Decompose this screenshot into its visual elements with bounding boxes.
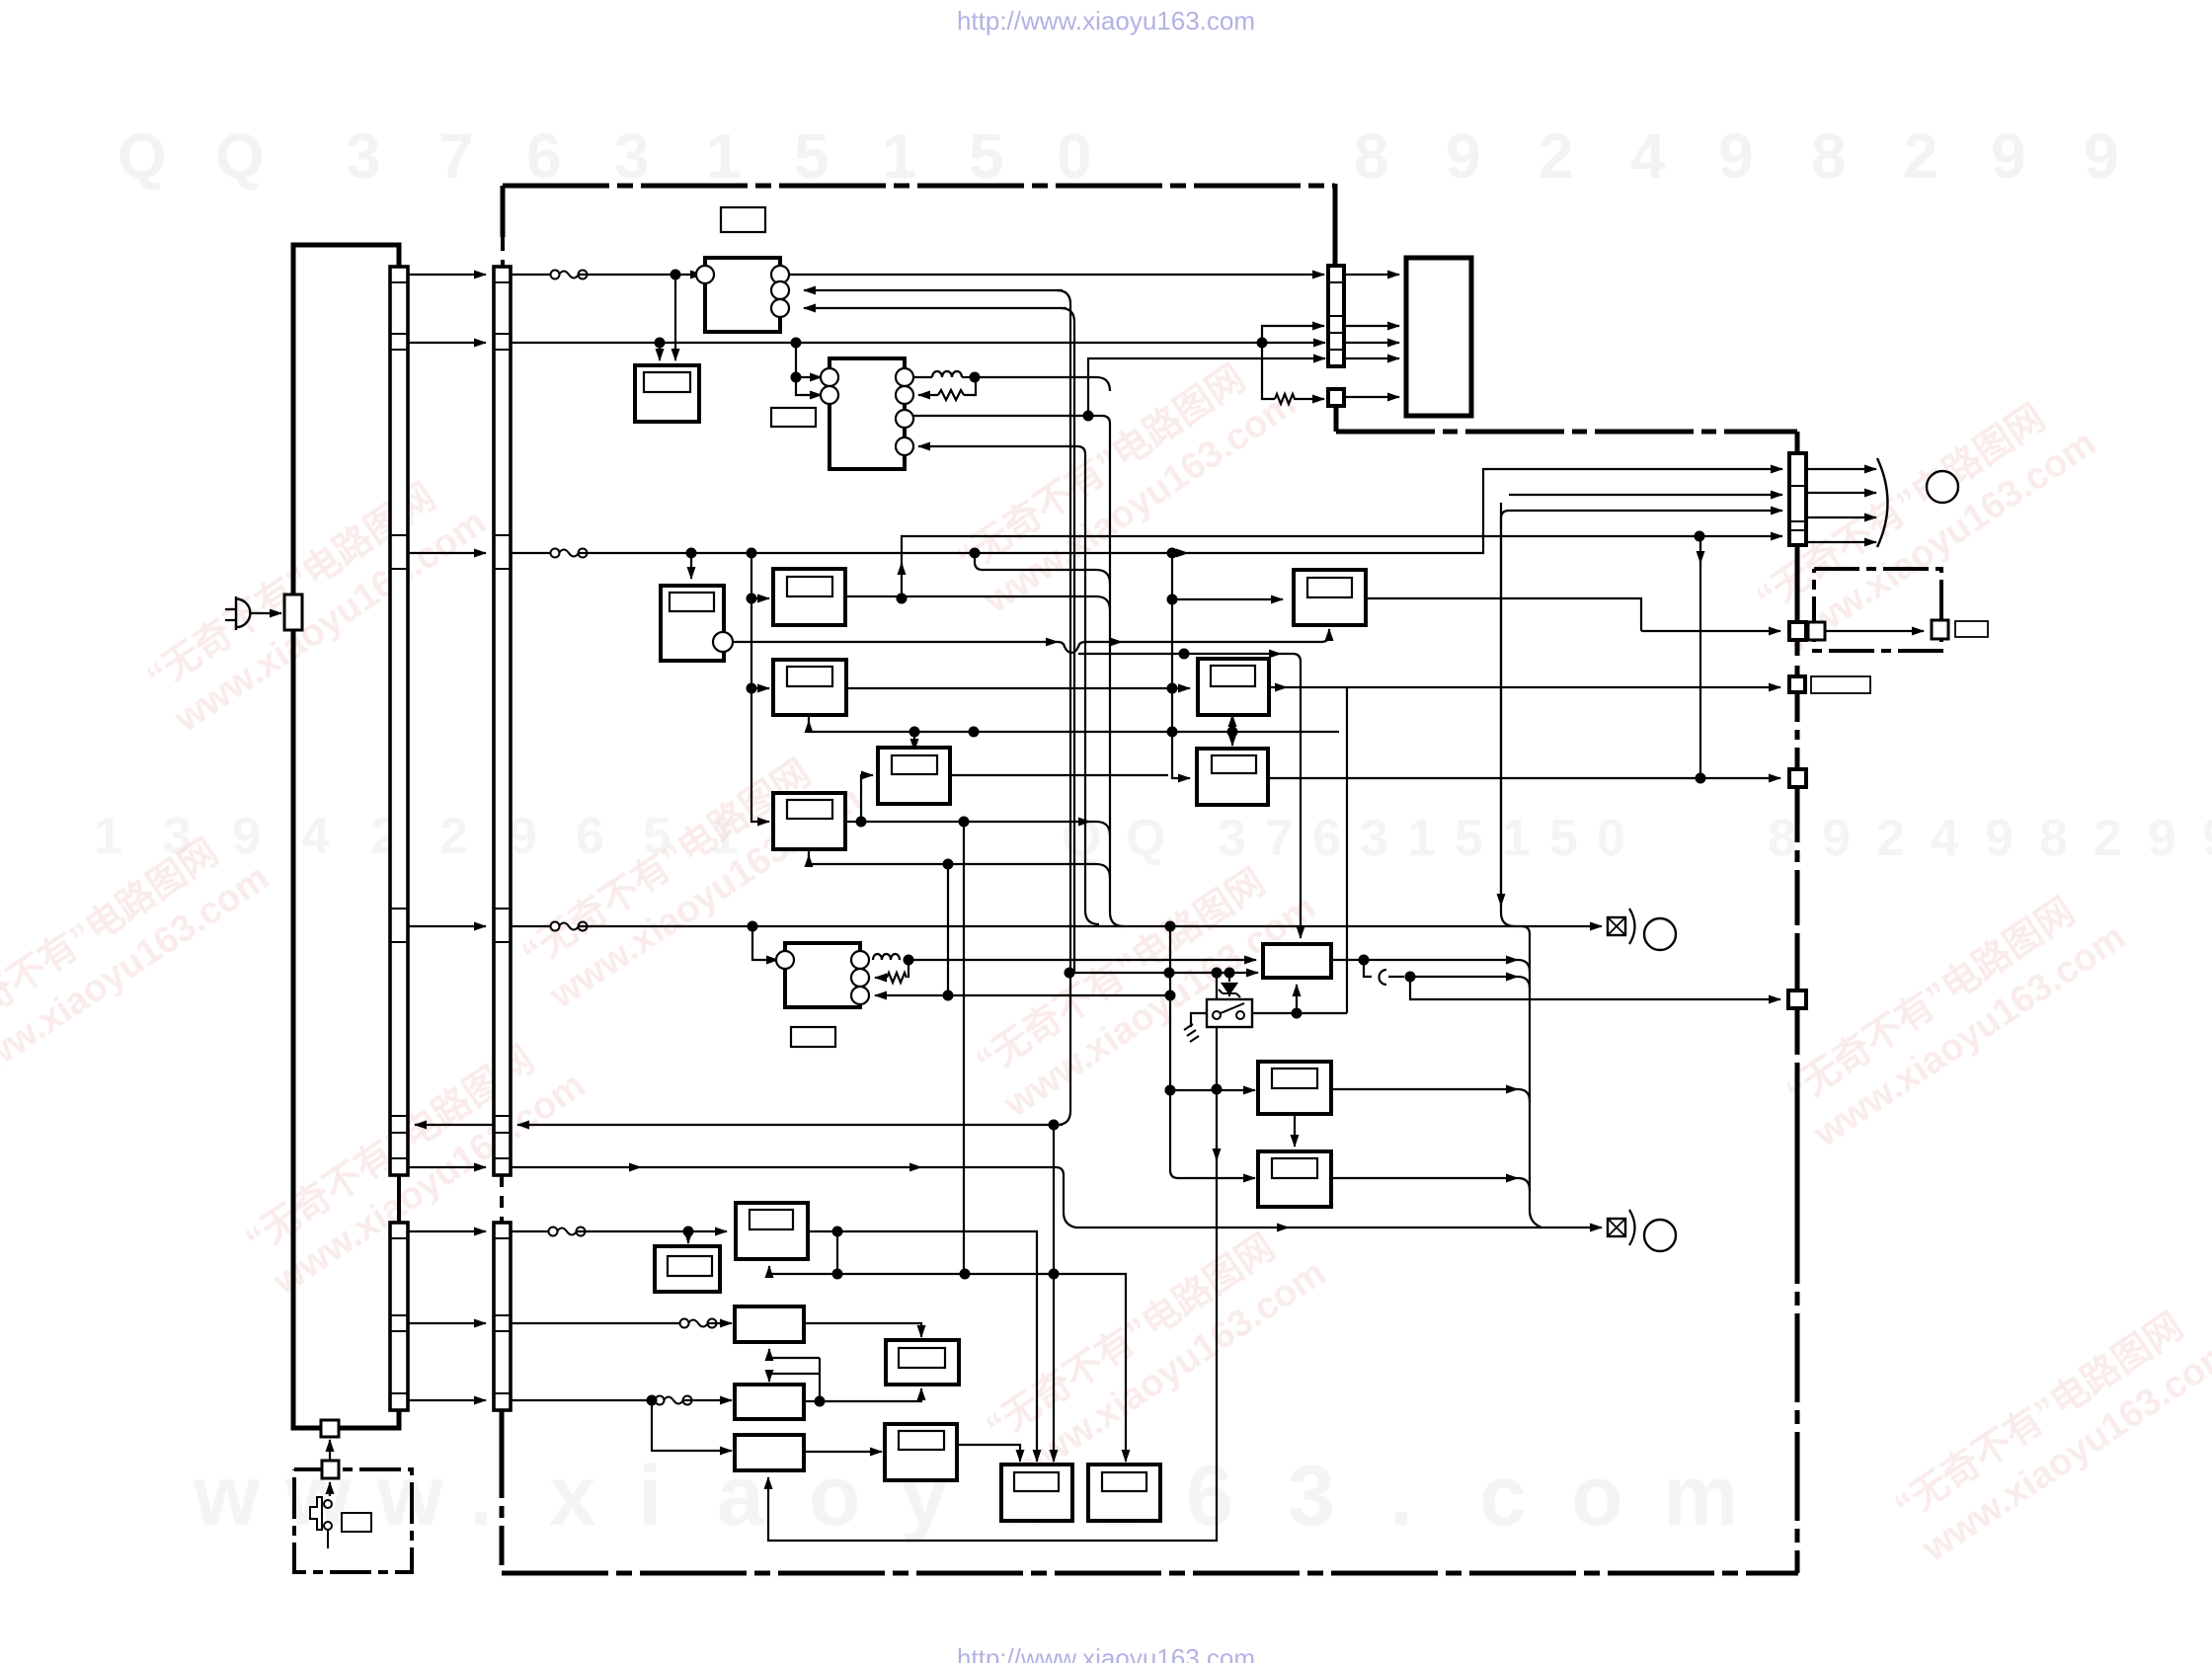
svg-text:1: 1 bbox=[706, 120, 742, 192]
wire boxB10 out to boxJ bottom bbox=[804, 1388, 921, 1401]
svg-text:0: 0 bbox=[1597, 810, 1625, 867]
svg-text:Q: Q bbox=[1062, 810, 1101, 867]
wire branch x926 up into box3 top bbox=[913, 732, 915, 751]
svg-text:7: 7 bbox=[1265, 810, 1294, 867]
fuse F2 bus3 bbox=[551, 549, 588, 558]
box B10 bbox=[735, 1385, 804, 1419]
svg-text:9: 9 bbox=[1985, 810, 2014, 867]
svg-text:2: 2 bbox=[1539, 120, 1574, 192]
wire boxI out corner down into boxJ top bbox=[804, 1323, 921, 1337]
wire branch x1067 from return bus down through y1290 into B13 bbox=[1053, 1125, 1055, 1462]
junction node x1083 y985 bbox=[1065, 968, 1075, 979]
wire boxB11 out into boxB12 bbox=[804, 1451, 882, 1453]
wire y543 long heavy run to C4 pin4 bbox=[902, 536, 1782, 598]
label L3 below T1 bbox=[791, 1027, 835, 1047]
wire y1290 distribution bbox=[768, 1266, 770, 1274]
junction node x977 y1290 bbox=[960, 1269, 971, 1280]
label L2 bbox=[771, 408, 816, 427]
wire switch out to box-Z bottom and vertical x1364 bbox=[1252, 1012, 1347, 1014]
junction node x761 y697 bbox=[747, 683, 757, 694]
wire bus9 y1418 dot fuse boxB10 bbox=[511, 1399, 656, 1401]
wire branch x660 down to boxB11 input y1469 bbox=[652, 1400, 732, 1451]
svg-text:9: 9 bbox=[2148, 810, 2176, 867]
junction node x1187 y607 bbox=[1167, 594, 1178, 605]
junction node x697 y1247 bbox=[683, 1227, 694, 1237]
wire branch x668 down into U3 top bbox=[659, 343, 661, 360]
vertical A x1084 from y294 elbow down to y1139 bbox=[1057, 290, 1070, 1125]
junction node x1232 y985 bbox=[1212, 968, 1223, 979]
wire bus8 y1340 to fuse to boxI bbox=[511, 1322, 680, 1324]
wire y989 dot down to y1012 to border square C8 bbox=[1410, 977, 1418, 999]
svg-text:o: o bbox=[809, 1449, 861, 1544]
resistor R3 bbox=[887, 973, 907, 983]
wire box1 out y604 joins vertical C bbox=[845, 596, 1110, 610]
pink diagonal watermarks bbox=[0, 342, 2212, 1570]
junction node x960 y1008 bbox=[943, 990, 954, 1001]
svg-text:3: 3 bbox=[1288, 1449, 1335, 1544]
wire branch x761 down left column into box1 box2 box4 bbox=[751, 553, 759, 822]
top-right block bbox=[1406, 258, 1471, 416]
wire branch x1248 (box6-box3b link) bbox=[1231, 715, 1233, 746]
wire C4 pins y501 y517 from elbows of vertical x1520 bbox=[1509, 494, 1782, 496]
wire bus3 y560 bar2 to fuse bbox=[511, 552, 551, 554]
svg-text:8: 8 bbox=[1354, 120, 1389, 192]
svg-text:5: 5 bbox=[1549, 810, 1578, 867]
wire bus1 y278 bar2 to fuse to IC1 bbox=[511, 274, 551, 276]
box B12 bbox=[885, 1424, 957, 1480]
vertical x1364 from box6 level down to switch wire bbox=[1346, 687, 1348, 1013]
svg-text:9: 9 bbox=[1718, 120, 1754, 192]
wire bus4 y938 bar2 to fuse to speaker1 bbox=[511, 925, 551, 927]
svg-text:6: 6 bbox=[576, 808, 604, 865]
fuse F4 bus7 bbox=[549, 1227, 586, 1236]
box G bbox=[655, 1246, 720, 1292]
box J bbox=[886, 1340, 959, 1385]
junction node x1067 y1139 bbox=[1049, 1120, 1060, 1131]
border squares C5a C5b bbox=[1789, 622, 1806, 640]
speaker 1 bbox=[1608, 909, 1676, 950]
top section dash-dot border top edge bbox=[503, 184, 1335, 189]
wire box2 out y697 east to box6 bbox=[846, 687, 1168, 689]
bottom border dash-dot bbox=[502, 1571, 1798, 1576]
svg-text:x: x bbox=[549, 1449, 596, 1544]
junction node x848 y1290 bbox=[832, 1269, 843, 1280]
square C7 speaker-line bbox=[1789, 769, 1806, 787]
junction node x1381 y972 bbox=[1359, 955, 1370, 966]
box I bbox=[735, 1307, 804, 1342]
box B13 bbox=[1001, 1465, 1072, 1521]
connector bar1 bbox=[390, 267, 408, 1175]
gray digit row 2 (middle) bbox=[94, 808, 2212, 867]
connector bar2 bbox=[494, 267, 511, 1175]
box U3 bbox=[635, 365, 699, 422]
wire box5 out y606 step down to border squares C5 bbox=[1366, 598, 1641, 631]
svg-text:6: 6 bbox=[526, 120, 562, 192]
wire bus8 y1340 bar1b-bar2b bbox=[408, 1322, 486, 1324]
square S1 bbox=[321, 1420, 339, 1437]
box7 bbox=[1258, 1151, 1331, 1207]
wire IC1 out y278 to connector C3 bbox=[788, 274, 1324, 276]
wire IC2 pin y452 arrow from vertical x1099 bbox=[918, 445, 1077, 447]
box H bbox=[736, 1203, 808, 1259]
junction node x848 y1247 bbox=[832, 1227, 843, 1237]
box B14 bbox=[1088, 1465, 1160, 1521]
junction node x806 y382 bbox=[791, 372, 802, 383]
svg-text:Q: Q bbox=[215, 120, 265, 192]
wire C3 pin outputs to top-right box bbox=[1344, 274, 1399, 276]
wire IC1 pin2 y294 return from vertical bbox=[804, 289, 1063, 291]
wire bus2 y347 long run to connector C3 bbox=[511, 342, 1325, 344]
connector bar2b bbox=[494, 1223, 511, 1410]
transformer T1 bbox=[776, 943, 869, 1007]
box3b bbox=[1197, 749, 1268, 805]
IC2 with pins bbox=[821, 358, 913, 469]
bottom-left dash-dot box bbox=[294, 1469, 412, 1572]
svg-text:6: 6 bbox=[1186, 1449, 1233, 1544]
square C9 and label bbox=[1932, 620, 1948, 639]
junction node x926 y741 bbox=[909, 727, 920, 738]
wire y363 from vertical x1102 into C3 pin4 bbox=[1088, 358, 1325, 416]
junction node x684 y278 bbox=[671, 270, 681, 280]
gray letters row 3 (bottom) bbox=[193, 1449, 1738, 1544]
svg-text:Q: Q bbox=[1126, 810, 1165, 867]
left border below lower connector (solid then dash-dot) bbox=[500, 1410, 505, 1459]
vertical B x1088 from y312 elbow down to y985 bbox=[1061, 308, 1074, 973]
wire bus5 y1139 return into bars bbox=[517, 1124, 1063, 1126]
wire bus4 y938 bar1-bar2 bbox=[408, 925, 486, 927]
left outer board outline bbox=[293, 245, 399, 1428]
junction node x700 y560 bbox=[686, 548, 697, 559]
junction node x1722 y788 bbox=[1696, 773, 1706, 784]
wire y989 from curl to x1549 bbox=[1388, 976, 1404, 978]
wire IC2 pin y421 to vertical C x1124 bbox=[912, 415, 1096, 417]
wire box3b out y788 east to border square bbox=[1268, 777, 1780, 779]
junction node x987 y560 bbox=[970, 548, 981, 559]
junction node x761 y560 bbox=[747, 548, 757, 559]
svg-text:3: 3 bbox=[346, 120, 381, 192]
svg-text:w: w bbox=[193, 1449, 261, 1544]
wire bus3 y560 bar1-bar2 bbox=[408, 552, 486, 554]
svg-text:4: 4 bbox=[1630, 120, 1666, 192]
junction node x1199 y662 bbox=[1179, 649, 1190, 660]
IC1 with pins bbox=[696, 258, 789, 332]
giant gray digit row 1 bbox=[118, 120, 2119, 192]
junction node x987 y382 bbox=[970, 372, 981, 383]
box6 bbox=[1198, 659, 1269, 715]
box8 bbox=[1258, 1062, 1331, 1114]
left border vertical above connector bbox=[501, 186, 506, 237]
wire resistor loop into IC2 pin y400 bbox=[918, 394, 938, 396]
wire branch x960 down from y875 bbox=[947, 864, 949, 995]
junction node x762 y938 bbox=[748, 921, 758, 932]
box1 bbox=[773, 569, 845, 625]
vertical x1549 branch from speaker wire collecting returns down to speaker2 wire bbox=[1522, 926, 1541, 1227]
svg-text:c: c bbox=[1479, 1449, 1527, 1544]
wire boxB12 out corner down into boxB13 bbox=[957, 1445, 1020, 1462]
wire y985 zener line from vertical B to box-Z bbox=[1074, 972, 1258, 974]
vertical C x1124 collects y421,y577,y604,y832,y875 and merges into bus y938 bbox=[1096, 416, 1124, 926]
svg-text:1: 1 bbox=[882, 120, 917, 192]
inductor IND1 bbox=[932, 371, 962, 377]
junction node x1187 y697 bbox=[1167, 683, 1178, 694]
svg-text:5: 5 bbox=[794, 120, 829, 192]
svg-text:7: 7 bbox=[438, 120, 474, 192]
svg-text:1: 1 bbox=[94, 808, 122, 865]
wire junction x684 down into U3 top bbox=[674, 275, 676, 360]
wire C4 outputs to bracket bbox=[1806, 468, 1876, 470]
wire branch x976 down from y832 to y1290 bbox=[963, 822, 965, 1274]
junction node x1102 y421 bbox=[1083, 411, 1094, 422]
svg-text:2: 2 bbox=[2093, 810, 2122, 867]
box B11 bbox=[735, 1435, 804, 1470]
svg-text:4: 4 bbox=[301, 808, 330, 865]
svg-text:http://www.xiaoyu163.com: http://www.xiaoyu163.com bbox=[957, 1643, 1255, 1663]
wire feedback x1232 from y985 down to y1560 left to boxB11 bottom bbox=[768, 973, 1217, 1541]
resistor R1 near C3 bbox=[1275, 394, 1295, 404]
junction node x830 y1419 bbox=[815, 1396, 826, 1407]
wire S1 S2 link bbox=[329, 1440, 331, 1461]
wire box4 out y832 with junctions, joins vertical C bbox=[845, 821, 1090, 823]
wire zener branch x1245 down into switch bbox=[1228, 973, 1230, 982]
wire bus6 y1182 bar1-bar2 bbox=[408, 1166, 486, 1168]
wire boxH out y1247 corner down x1050 into B13 bbox=[808, 1231, 1037, 1462]
svg-text:8: 8 bbox=[2039, 810, 2068, 867]
svg-text:3: 3 bbox=[1360, 810, 1388, 867]
junction node x1245 y985 bbox=[1224, 968, 1235, 979]
junction node x761 y606 bbox=[747, 594, 757, 604]
connector C4 bbox=[1789, 453, 1806, 545]
junction node x1248 y741 bbox=[1227, 727, 1238, 738]
svg-text:2: 2 bbox=[1876, 810, 1905, 867]
zener diode D1 bbox=[1219, 984, 1240, 997]
svg-text:9: 9 bbox=[1991, 120, 2026, 192]
wire switch ground stub bbox=[1191, 1013, 1207, 1027]
svg-text:6: 6 bbox=[1312, 810, 1341, 867]
fuse F1 bus1 bbox=[551, 271, 588, 279]
wire switchbox up into S2 bbox=[329, 1482, 331, 1496]
junction node x1428 y989 bbox=[1405, 972, 1416, 983]
junction node x976 y832 bbox=[959, 817, 970, 828]
inductor IND2 bbox=[873, 954, 900, 960]
wire transformer T1 out y972 east into box-Z bbox=[908, 959, 1256, 961]
svg-text:9: 9 bbox=[1446, 120, 1481, 192]
wire box6 out y696 to border square C6 bbox=[1269, 686, 1287, 688]
svg-text:9: 9 bbox=[1822, 810, 1851, 867]
junction node x872 y832 bbox=[856, 817, 867, 828]
square S2 bbox=[322, 1461, 339, 1478]
wire branch x762 down into T1 bbox=[752, 926, 778, 960]
junction node x1184 y985 bbox=[1164, 968, 1175, 979]
wire IC1 pin3 y312 return from vertical bbox=[804, 307, 1066, 309]
junction node x1187 y560 bbox=[1167, 548, 1178, 559]
wire box8 top link from box7 bbox=[1294, 1114, 1296, 1147]
AC plug bbox=[225, 596, 250, 630]
wire y662 from verticals area to box-Z top via x1317 bbox=[1078, 653, 1281, 655]
svg-text:2: 2 bbox=[1903, 120, 1938, 192]
junction node x668 y347 bbox=[655, 338, 666, 349]
wire bus6 y1182 east to elbow down x1085 bbox=[511, 1166, 641, 1168]
svg-text:1: 1 bbox=[1502, 810, 1531, 867]
wire bus1 y278 bar1-bar2 bbox=[408, 274, 486, 276]
wire branch x700 down into U4 top bbox=[690, 553, 692, 579]
wire box7 out y1193 to x1549 bbox=[1331, 1177, 1518, 1179]
svg-text:i: i bbox=[638, 1449, 662, 1544]
junction node x1067 y1290 bbox=[1049, 1269, 1060, 1280]
wire branch x987 down then y577 east joins vertical C bbox=[975, 553, 1110, 584]
border under top-right section: solid stub below C3 square then dash-dot to right corner bbox=[1334, 406, 1339, 432]
svg-text:http://www.xiaoyu163.com: http://www.xiaoyu163.com bbox=[957, 6, 1255, 36]
junction node x1185 y938 bbox=[1165, 921, 1176, 932]
junction node x960 y875 bbox=[943, 859, 954, 870]
wire bus9 y1418 bar1b-bar2b bbox=[408, 1399, 486, 1401]
wire box8 out y1103 to x1549 bbox=[1331, 1088, 1518, 1090]
svg-text:.: . bbox=[469, 1449, 493, 1544]
top border corner vertical (solid) bbox=[1333, 184, 1338, 266]
wire plug to AC inlet bbox=[250, 612, 281, 614]
ground symbol bbox=[1184, 1024, 1199, 1042]
AC inlet connector bbox=[284, 594, 302, 630]
connector C3 square pin bbox=[1328, 389, 1344, 406]
wire box4 bottom feed y875 joins vertical C bbox=[808, 850, 810, 864]
bracket after C4 bbox=[1877, 458, 1888, 547]
wire box3 out y785 east to corner of x1187 feed bbox=[950, 774, 1168, 776]
junction node x920 y972 bbox=[904, 955, 914, 966]
junction node x1313 y1026 bbox=[1292, 1008, 1303, 1019]
power switch symbol in bottom-left box bbox=[310, 1497, 371, 1548]
junction node x806 y347 bbox=[791, 338, 802, 349]
speaker 2 bbox=[1608, 1210, 1676, 1251]
wire bus2 y347 bar1-bar2 bbox=[408, 342, 486, 344]
wire T1 resistor return y990 bbox=[875, 977, 887, 979]
switch SW1 bbox=[1207, 999, 1252, 1027]
right border: C4 to squares (solid heavy) bbox=[1795, 545, 1800, 622]
svg-text:9: 9 bbox=[232, 808, 261, 865]
svg-text:.: . bbox=[1389, 1449, 1413, 1544]
junction node x1278 y347 bbox=[1257, 338, 1268, 349]
wire bus3 y560 long run with corner up x1502 to C4 pin1 bbox=[579, 552, 1188, 554]
junction node x1187 y741 bbox=[1167, 727, 1178, 738]
top-right dash-dot sub-box bbox=[1814, 569, 1941, 651]
right border top corner vertical down to connector C4 bbox=[1795, 432, 1800, 454]
svg-text:4: 4 bbox=[1931, 810, 1959, 867]
wire bus7 y1247 bar2b fuse boxG boxH bbox=[511, 1230, 549, 1232]
wire y382 junction to elbow down x1124 (joins vertical C) bbox=[975, 377, 1110, 391]
fuse F5 bus8 bbox=[680, 1319, 717, 1328]
vertical x1185 from bus y938 down to box7 bbox=[1170, 926, 1178, 1178]
fuse F3 bus4 bbox=[551, 922, 588, 931]
box U4 with circle pin bbox=[661, 586, 724, 661]
wire T1 pin y1008 return from x1185 bbox=[875, 994, 1170, 996]
wire box-Z out y972 to x1549 bbox=[1331, 959, 1518, 961]
wire bus7 y1247 bar1b-bar2b bbox=[408, 1230, 486, 1232]
box5 bbox=[1294, 570, 1366, 625]
wire box2 bottom feed y741 long run to vertical x1364 bbox=[809, 717, 1339, 732]
svg-text:o: o bbox=[1571, 1449, 1623, 1544]
wire branch x1278 down to resistor R1 into C3 square bbox=[1262, 343, 1275, 399]
svg-text:Q: Q bbox=[118, 120, 167, 192]
wire branch dot y972 down through curl bbox=[1364, 960, 1372, 977]
wire boxI feedback loop from x830 bbox=[769, 1374, 820, 1382]
label L1 bbox=[721, 207, 765, 232]
left border dashed link between connector columns bbox=[500, 1175, 504, 1223]
wire branch x1278 up to C3 pin y330 bbox=[1262, 326, 1324, 343]
wire U4 circle out y650 east with hop, corner up into box5 bottom bbox=[732, 641, 1058, 643]
box2 bbox=[773, 660, 846, 715]
svg-text:3: 3 bbox=[1218, 810, 1246, 867]
svg-text:5: 5 bbox=[969, 120, 1004, 192]
connector C3 bbox=[1328, 266, 1344, 366]
svg-text:5: 5 bbox=[1455, 810, 1483, 867]
wire box4 up-branch x872 into box3 bbox=[861, 775, 869, 822]
svg-text:9: 9 bbox=[2202, 810, 2212, 867]
junction node x1721 y543 bbox=[1695, 531, 1705, 542]
box4 bbox=[773, 793, 845, 849]
fuse F6 bus9 bbox=[656, 1396, 692, 1405]
wire speaker2 feed y1243 bbox=[1075, 1227, 1289, 1228]
bottom link L below bar1b through square S1 bbox=[293, 1410, 399, 1428]
svg-text:1: 1 bbox=[1407, 810, 1436, 867]
box3 bbox=[878, 748, 950, 804]
svg-text:3: 3 bbox=[614, 120, 650, 192]
circle after C4 bbox=[1927, 471, 1958, 503]
square C6 and label bbox=[1789, 676, 1805, 692]
connector bar1b bbox=[390, 1223, 408, 1410]
junction node x913 y606 bbox=[897, 594, 908, 604]
extra wires: x848 small vertical bbox=[836, 1231, 838, 1274]
wire branch x806 down to IC2 pins bbox=[796, 343, 822, 377]
vertical x1085 down, elbow right into speaker2 wire bbox=[1056, 1167, 1075, 1227]
svg-text:8: 8 bbox=[1811, 120, 1847, 192]
resistor R2 zigzag bbox=[938, 390, 964, 400]
junction node x1185 y1008 bbox=[1165, 990, 1176, 1001]
svg-text:0: 0 bbox=[1057, 120, 1092, 192]
vertical x1520 from elbows down merging into speaker wire y938 bbox=[1501, 511, 1515, 926]
junction node x1232 y1103 bbox=[1212, 1084, 1223, 1095]
svg-text:m: m bbox=[1663, 1449, 1738, 1544]
svg-text:8: 8 bbox=[1768, 810, 1796, 867]
wire IC2 pin y382 through inductor to junction x987 bbox=[912, 376, 932, 378]
wire branch x1722 down to y788 bbox=[1699, 536, 1701, 778]
svg-text:9: 9 bbox=[2084, 120, 2119, 192]
wire C5b to C9 square bbox=[1826, 630, 1924, 632]
wire branch x1187 down feeding box5 box6 box3b bbox=[1172, 553, 1180, 778]
junction node x660 y1418 bbox=[647, 1395, 658, 1406]
junction node x1185 y1104 bbox=[1165, 1085, 1176, 1096]
curl connector symbol bbox=[1380, 970, 1386, 985]
square C8 bbox=[1788, 990, 1806, 1008]
svg-text:2: 2 bbox=[439, 808, 468, 865]
box Z (protection) bbox=[1263, 944, 1331, 978]
svg-text:9: 9 bbox=[509, 808, 537, 865]
link bar1 to bar1b bbox=[397, 1175, 401, 1223]
junction node x986 y741 bbox=[969, 727, 980, 738]
